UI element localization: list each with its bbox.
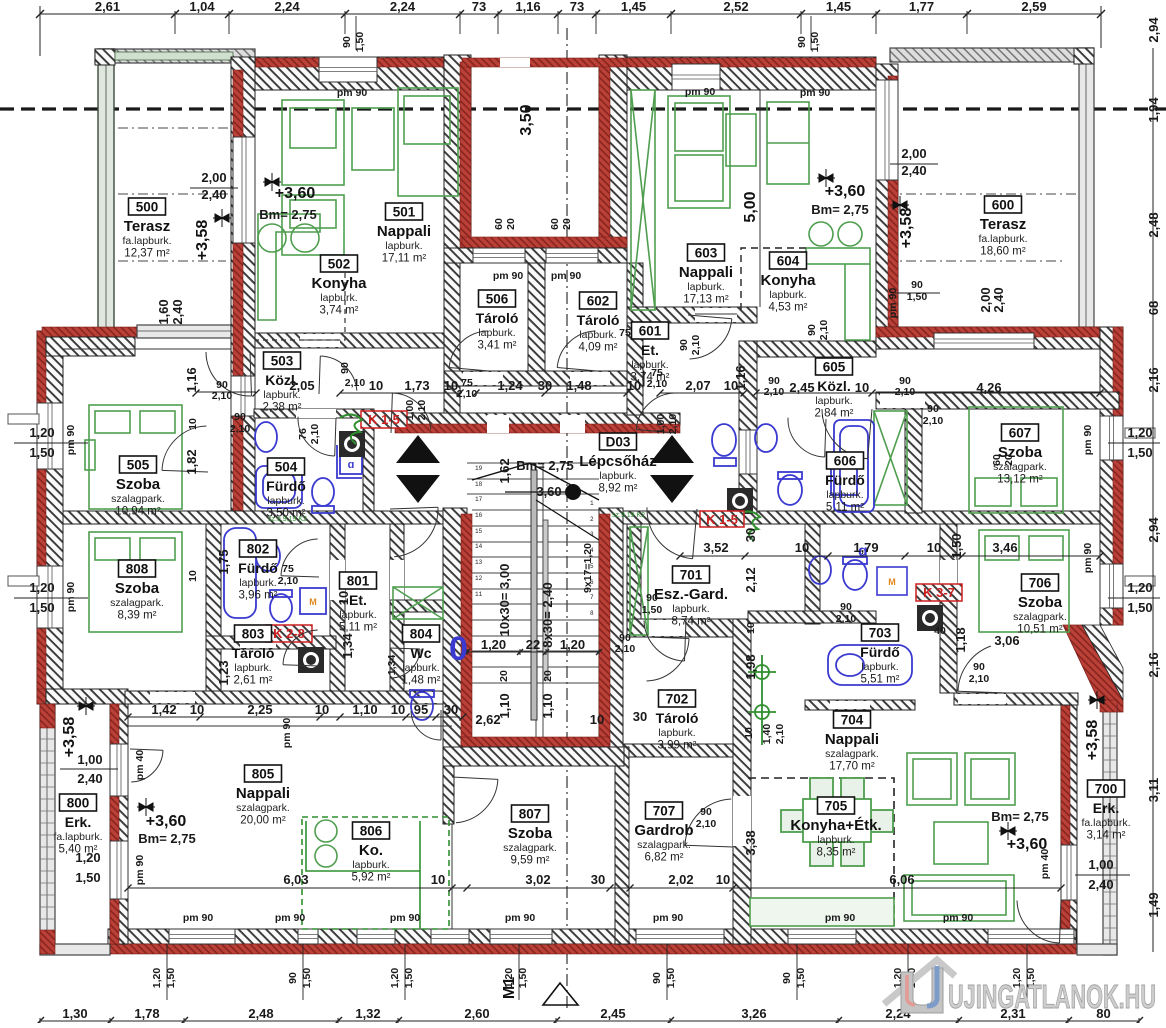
svg-text:13,12 m²: 13,12 m²: [997, 474, 1043, 486]
wall 801/804 horizontal: [390, 600, 456, 612]
svg-text:Konyha: Konyha: [311, 275, 367, 292]
room label 803: [232, 625, 275, 687]
svg-text:0: 0: [449, 630, 468, 668]
svg-text:Fürdő: Fürdő: [266, 478, 306, 494]
svg-text:10,51 m²: 10,51 m²: [1017, 624, 1063, 636]
bed room 607: [969, 407, 1063, 513]
svg-text:pm 90: pm 90: [825, 912, 856, 924]
door 807: [452, 777, 498, 823]
door 804: [390, 648, 420, 678]
svg-text:lapburk.: lapburk.: [861, 661, 898, 673]
shaft camera K2-8: [298, 647, 324, 673]
watermark logo U: [884, 960, 1156, 1015]
svg-text:17,11 m²: 17,11 m²: [382, 253, 427, 265]
svg-text:704: 704: [841, 713, 864, 728]
southeast chamfer wall: [1063, 625, 1123, 712]
svg-text:1,20: 1,20: [560, 637, 585, 652]
svg-text:73: 73: [472, 0, 486, 14]
stair direction line and dot: [565, 484, 581, 500]
svg-text:5,51 m²: 5,51 m²: [861, 674, 900, 686]
svg-text:802: 802: [247, 542, 270, 557]
north exterior wall unit 603: [627, 57, 876, 90]
svg-text:8,74 m²: 8,74 m²: [672, 616, 711, 628]
svg-text:2,10: 2,10: [696, 818, 717, 830]
svg-text:700: 700: [1095, 782, 1118, 797]
svg-text:2,10: 2,10: [647, 378, 668, 390]
room label 500: [122, 198, 171, 260]
svg-text:K 1-5: K 1-5: [368, 412, 400, 427]
svg-text:20: 20: [498, 670, 510, 682]
svg-text:75: 75: [282, 563, 294, 575]
room label 600: [978, 196, 1027, 258]
svg-text:2,10: 2,10: [416, 400, 428, 421]
svg-text:lapburk.: lapburk.: [687, 281, 724, 293]
svg-text:17: 17: [475, 496, 483, 503]
svg-text:sz.9.19 K2: sz.9.19 K2: [612, 512, 645, 519]
svg-text:1,60: 1,60: [156, 299, 171, 324]
kitchen 806 dashed green boundary: [302, 817, 449, 929]
staircase break line: [472, 463, 599, 500]
kitchen 705 counter: [750, 898, 894, 926]
svg-text:2,40: 2,40: [170, 299, 185, 324]
east wall room 704: [1061, 705, 1077, 952]
room label 804: [402, 625, 441, 687]
svg-text:90: 90: [781, 972, 793, 984]
svg-text:2,40: 2,40: [1088, 877, 1113, 892]
svg-text:2,10: 2,10: [818, 320, 830, 341]
svg-text:Konyha+Étk.: Konyha+Étk.: [790, 817, 881, 834]
room 603/604 divider line: [759, 90, 761, 307]
shaft label K1-5: [361, 411, 407, 428]
svg-text:Ko.: Ko.: [359, 842, 383, 859]
svg-text:10: 10: [187, 570, 199, 582]
svg-text:pm 90: pm 90: [887, 288, 899, 319]
svg-text:9,59 m²: 9,59 m²: [511, 855, 550, 867]
svg-text:pm 90: pm 90: [653, 912, 684, 924]
section arrow down-right: [650, 475, 694, 503]
door 503 to 505: [206, 352, 252, 396]
balcony 700 railing east: [1103, 705, 1117, 955]
svg-text:90: 90: [646, 592, 658, 604]
svg-text:M: M: [888, 577, 896, 587]
svg-text:pm 90: pm 90: [505, 912, 536, 924]
terrace 500 dash-dot line 2: [98, 193, 258, 195]
svg-text:8,35 m²: 8,35 m²: [817, 847, 856, 859]
svg-text:3: 3: [590, 531, 594, 538]
room label 808: [110, 560, 164, 622]
svg-text:pm 90: pm 90: [493, 270, 524, 282]
svg-text:1,79: 1,79: [853, 540, 878, 555]
svg-text:808: 808: [126, 562, 149, 577]
door D03 to unit6: [636, 393, 676, 433]
svg-text:506: 506: [486, 292, 509, 307]
svg-text:Gardrob: Gardrob: [634, 822, 693, 839]
svg-text:+3,58: +3,58: [898, 208, 915, 249]
window 506 lightwell: [473, 248, 525, 263]
svg-text:501: 501: [393, 205, 416, 220]
svg-text:lapburk.: lapburk.: [352, 859, 389, 871]
svg-text:Bm= 2,75: Bm= 2,75: [991, 809, 1048, 824]
svg-text:7: 7: [590, 594, 594, 601]
room label 701: [654, 566, 728, 628]
svg-text:1,00: 1,00: [655, 414, 667, 435]
terrace600 bottom window: [934, 333, 1034, 349]
svg-text:3,96 m²: 3,96 m²: [239, 590, 278, 602]
svg-text:705: 705: [825, 799, 848, 814]
svg-text:2,94: 2,94: [1146, 17, 1161, 43]
svg-text:2,24: 2,24: [274, 0, 300, 14]
lightwell bottom wall: [444, 248, 627, 263]
svg-text:pm 90: pm 90: [800, 87, 831, 99]
south window: [788, 929, 856, 944]
terrace door 603-600: [876, 80, 898, 180]
svg-text:lapburk.: lapburk.: [239, 577, 276, 589]
svg-text:Tároló: Tároló: [232, 645, 275, 661]
bed room 808: [89, 532, 182, 632]
wall unit6 / terrace600: [876, 64, 898, 349]
svg-text:10: 10: [187, 418, 199, 430]
svg-text:Nappali: Nappali: [236, 785, 290, 802]
bed room 706: [979, 530, 1069, 632]
bathroom 802 fixtures: [224, 528, 326, 622]
svg-text:20: 20: [1003, 454, 1015, 466]
svg-text:2,10: 2,10: [309, 424, 321, 445]
tread numbers left: [475, 465, 594, 617]
terrace 500 corner post: [95, 49, 115, 65]
shaft label K3-7: [916, 584, 962, 601]
room label 802: [238, 540, 278, 602]
svg-text:2,40: 2,40: [201, 187, 226, 202]
svg-text:1,20: 1,20: [1127, 425, 1152, 440]
svg-text:30: 30: [444, 702, 458, 717]
svg-text:2,40: 2,40: [901, 163, 926, 178]
north window 501: [319, 57, 377, 82]
svg-text:90: 90: [796, 36, 808, 48]
terrace 500 dash-dot line 1: [98, 127, 240, 129]
level marker unit5: [263, 173, 281, 191]
svg-text:Szoba: Szoba: [116, 476, 161, 493]
svg-text:2,84 m²: 2,84 m²: [815, 408, 854, 420]
svg-text:2,10: 2,10: [774, 724, 786, 745]
svg-text:602: 602: [587, 294, 610, 309]
svg-text:pm 90: pm 90: [183, 912, 214, 924]
room label 705: [790, 797, 881, 859]
svg-text:73: 73: [570, 0, 584, 14]
svg-text:2,02: 2,02: [668, 872, 693, 887]
level marker: [77, 697, 95, 715]
svg-text:1,16: 1,16: [515, 0, 540, 14]
party slab left: [63, 511, 444, 524]
wall 802-803/801 vertical: [330, 524, 345, 691]
svg-text:szalagpark.: szalagpark.: [111, 493, 165, 505]
east window 607: [1100, 416, 1123, 460]
corridor D03 top wall: [395, 413, 680, 425]
svg-text:lapburk.: lapburk.: [579, 329, 616, 341]
svg-text:2,07: 2,07: [685, 378, 710, 393]
svg-text:1,42: 1,42: [151, 702, 176, 717]
svg-text:60: 60: [493, 218, 505, 230]
bottom witness lines: [167, 16, 1027, 1000]
svg-text:2,10: 2,10: [923, 415, 944, 427]
svg-text:807: 807: [519, 807, 542, 822]
svg-text:szalagpark.: szalagpark.: [503, 842, 557, 854]
wall 701/703-704 horizontal: [748, 611, 876, 623]
southwest corner red band: [37, 689, 128, 704]
svg-text:3,46: 3,46: [992, 540, 1017, 555]
svg-text:2,00: 2,00: [901, 146, 926, 161]
svg-text:Szoba: Szoba: [508, 825, 553, 842]
door 503 to 502: [319, 356, 357, 394]
svg-text:1,16: 1,16: [184, 367, 199, 392]
kitchen 705 dashed boundary: [748, 778, 894, 928]
svg-text:Wc: Wc: [411, 645, 432, 661]
wall 603/605: [627, 307, 757, 323]
wall 703-704/706 vertical: [940, 524, 957, 693]
south window: [357, 929, 395, 944]
svg-text:2,10: 2,10: [667, 414, 679, 435]
svg-text:1,40: 1,40: [761, 724, 773, 745]
svg-text:8,39 m²: 8,39 m²: [118, 610, 157, 622]
svg-text:1,48: 1,48: [566, 378, 591, 393]
svg-text:90: 90: [840, 601, 852, 613]
svg-text:lapburk.: lapburk.: [599, 470, 636, 482]
svg-text:1,82: 1,82: [184, 449, 199, 474]
svg-text:803: 803: [242, 627, 265, 642]
svg-text:1,04: 1,04: [189, 0, 215, 14]
svg-text:1,50: 1,50: [29, 445, 54, 460]
svg-text:2,38 m²: 2,38 m²: [263, 402, 302, 414]
door into 505: [162, 426, 208, 472]
svg-text:90: 90: [700, 806, 712, 818]
svg-text:2,10: 2,10: [690, 335, 702, 356]
north exterior wall unit 501: [233, 57, 460, 90]
svg-text:5,11 m²: 5,11 m²: [339, 622, 377, 634]
svg-text:6,03: 6,03: [283, 872, 308, 887]
svg-text:Bm= 2,75: Bm= 2,75: [259, 207, 316, 222]
bottom dimension chain: [36, 1017, 1143, 1025]
svg-text:4,53 m²: 4,53 m²: [769, 302, 808, 314]
svg-text:1,34: 1,34: [340, 633, 355, 659]
svg-text:90: 90: [973, 661, 985, 673]
wall 706/704: [954, 693, 1078, 705]
svg-text:801: 801: [347, 574, 370, 589]
room label 800: [53, 794, 102, 856]
svg-text:2,59: 2,59: [1021, 0, 1046, 14]
svg-text:10: 10: [716, 872, 730, 887]
svg-text:1,78: 1,78: [134, 1006, 159, 1021]
svg-text:lapburk.: lapburk.: [402, 662, 439, 674]
terrace door 500-501: [233, 137, 255, 243]
svg-text:M1: M1: [501, 977, 518, 999]
svg-text:1,45: 1,45: [621, 0, 646, 14]
svg-text:500: 500: [136, 200, 159, 215]
section arrow up-left: [396, 435, 440, 463]
wall 805/807 vertical: [443, 766, 454, 824]
west window room 505: [37, 403, 63, 469]
room label 606: [825, 452, 865, 514]
east window 706: [1100, 564, 1123, 608]
south window: [988, 929, 1074, 944]
room label 807: [503, 805, 557, 867]
wall 808/802 vertical: [206, 524, 221, 691]
bathroom 703 fixtures: [809, 556, 912, 685]
svg-text:1,20: 1,20: [151, 968, 163, 989]
svg-text:90: 90: [341, 36, 353, 48]
svg-text:lapburk.: lapburk.: [672, 603, 709, 615]
svg-text:Bm= 2,75: Bm= 2,75: [811, 202, 868, 217]
door D03 to unit8 entry: [390, 507, 438, 557]
wall 701 left vertical: [627, 524, 641, 619]
svg-text:2,60: 2,60: [464, 1006, 489, 1021]
svg-text:90: 90: [651, 972, 663, 984]
svg-text:Terasz: Terasz: [124, 218, 170, 235]
svg-text:605: 605: [823, 360, 846, 375]
tall cupboard 603: [631, 90, 655, 310]
svg-text:1,20: 1,20: [75, 850, 100, 865]
balcony door 704-700: [1061, 845, 1077, 900]
party slab right: [616, 511, 1100, 524]
svg-text:2,05: 2,05: [289, 378, 314, 393]
door D03 to unit5: [391, 393, 431, 433]
shaft camera right K1-5: [727, 488, 753, 514]
stairwell bottom wall: [443, 747, 624, 766]
svg-text:603: 603: [695, 246, 718, 261]
svg-text:1,34: 1,34: [386, 655, 398, 676]
svg-text:Fürdő: Fürdő: [825, 472, 865, 488]
room label 504: [266, 458, 306, 520]
svg-text:+3,60: +3,60: [275, 185, 316, 202]
svg-text:30: 30: [591, 872, 605, 887]
balcony door 805-800: [110, 744, 128, 796]
svg-text:pm 90: pm 90: [65, 582, 77, 613]
stairwell bottom red band: [461, 737, 610, 747]
svg-text:lapburk.: lapburk.: [769, 289, 806, 301]
svg-text:szalagpark.: szalagpark.: [637, 839, 691, 851]
green shaft scribble K1-5: [340, 414, 362, 444]
svg-text:17,13 m²: 17,13 m²: [683, 294, 729, 306]
lower rooms dimension row: [128, 887, 452, 889]
east window sill marks: [1125, 428, 1155, 438]
door 701 to 702: [645, 637, 689, 681]
washing machine M 703: [877, 567, 907, 595]
svg-text:Konyha: Konyha: [760, 272, 816, 289]
door 505: [231, 376, 255, 416]
door 707 to 704: [685, 799, 733, 847]
svg-text:804: 804: [410, 627, 433, 642]
svg-text:805: 805: [252, 767, 275, 782]
svg-text:Terasz: Terasz: [980, 216, 1026, 233]
balcony 800 railing south: [40, 944, 110, 955]
terrace 500 bottom railing: [137, 325, 233, 338]
red K label right of stairwell: [700, 511, 744, 527]
svg-text:lapburk.: lapburk.: [826, 489, 863, 501]
west window room 808: [37, 566, 63, 628]
east exterior wall: [1100, 327, 1123, 625]
svg-text:pm 90: pm 90: [134, 855, 146, 886]
svg-text:1,73: 1,73: [404, 378, 429, 393]
door 605 to 607: [822, 409, 872, 459]
svg-text:pm 40: pm 40: [1039, 849, 1051, 880]
svg-text:503: 503: [271, 354, 294, 369]
wall 702/707: [615, 744, 739, 757]
svg-text:14: 14: [475, 543, 483, 550]
door 603 to 601: [688, 315, 732, 359]
svg-text:lapburk.: lapburk.: [385, 240, 422, 252]
svg-text:13: 13: [475, 559, 483, 566]
terrace 500 glazing detail top: [115, 52, 233, 60]
svg-text:6,82 m²: 6,82 m²: [645, 852, 684, 864]
svg-text:2,10: 2,10: [969, 673, 990, 685]
wall 801/804-stair vertical: [390, 524, 404, 691]
kitchen 604 counter: [806, 248, 870, 340]
svg-text:2,10: 2,10: [895, 386, 916, 398]
room label 503: [263, 352, 302, 414]
door 704 to 706: [958, 646, 1008, 693]
svg-text:12,37 m²: 12,37 m²: [124, 248, 170, 260]
svg-text:1,20: 1,20: [29, 580, 54, 595]
terrace 600 corner post: [1074, 48, 1094, 64]
svg-text:lapburk.: lapburk.: [267, 495, 304, 507]
svg-text:10: 10: [369, 378, 383, 393]
wall 807/707 vertical: [615, 747, 629, 944]
wall 506/602 divider: [528, 263, 545, 386]
svg-text:ɑ: ɑ: [348, 459, 355, 471]
svg-text:10: 10: [743, 727, 755, 739]
bed room 505: [85, 405, 182, 509]
svg-text:2,10: 2,10: [615, 643, 636, 655]
left lower dimension row: [128, 716, 460, 718]
wall 702-707/704 vertical: [733, 619, 751, 944]
wardrobe X-box 801: [393, 587, 443, 619]
terrace 500 dash-dot line 3: [98, 260, 226, 262]
svg-text:10: 10: [745, 622, 757, 634]
balcony 700 rail ribs: [1103, 712, 1117, 940]
svg-text:90: 90: [287, 972, 299, 984]
room label 707: [634, 802, 693, 864]
svg-text:2,62: 2,62: [475, 712, 500, 727]
wall 602/603 vertical: [627, 263, 643, 415]
lightwell bottom red band: [462, 237, 627, 248]
room label 505: [111, 456, 165, 518]
right middle dimension row: [680, 555, 1100, 557]
svg-text:3,26: 3,26: [741, 1006, 766, 1021]
svg-text:600: 600: [992, 198, 1015, 213]
sofa set room 501: [282, 88, 458, 255]
svg-text:10: 10: [431, 872, 445, 887]
kitchen 502 counter: [258, 214, 320, 320]
svg-text:5,92 m²: 5,92 m²: [352, 872, 391, 884]
svg-text:1,50: 1,50: [809, 32, 821, 53]
balcony 800 red corner bottom: [40, 930, 55, 954]
wall 503/504: [254, 409, 364, 418]
svg-text:Közl.: Közl.: [817, 378, 850, 394]
room label 806: [352, 822, 391, 884]
svg-text:2,40: 2,40: [991, 287, 1006, 312]
svg-text:1,50: 1,50: [949, 533, 964, 558]
svg-text:505: 505: [127, 458, 150, 473]
svg-text:5,11 m²: 5,11 m²: [826, 502, 864, 514]
svg-text:Bm= 2,75: Bm= 2,75: [138, 831, 195, 846]
svg-text:707: 707: [653, 804, 676, 819]
svg-text:Nappali: Nappali: [679, 264, 733, 281]
wall 605/606 vertical: [739, 341, 757, 513]
terrace 600 top railing: [890, 48, 1093, 62]
svg-text:1,10: 1,10: [540, 693, 555, 718]
svg-text:D03: D03: [606, 435, 631, 450]
hall 6 fixtures blue: [712, 424, 857, 495]
staircase treads: [467, 463, 599, 737]
green shaft scribble right: [738, 511, 760, 541]
